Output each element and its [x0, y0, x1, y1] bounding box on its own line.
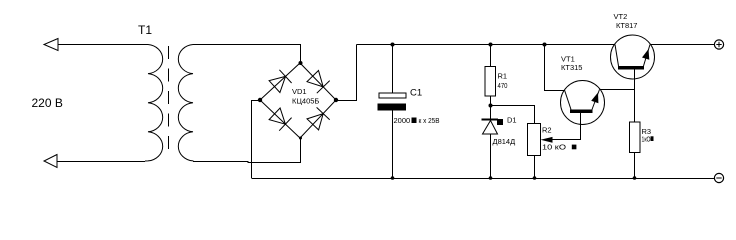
wire bridge plus to top rail: [336, 45, 357, 101]
svg-text:R2: R2: [542, 126, 552, 135]
output terminal plus: [714, 40, 723, 49]
resistor R2 (potentiometer): [528, 124, 541, 156]
transistor VT2 collector lead: [615, 45, 619, 67]
wire VT2 base lead down: [634, 70, 636, 123]
wire C1 top lead: [392, 45, 394, 94]
svg-text:C1: C1: [410, 88, 422, 99]
transformer T1 core: [168, 46, 170, 158]
R2 wiper arrow: [541, 137, 553, 143]
svg-text:к x 25В: к x 25В: [419, 116, 440, 125]
node bridge left (minus): [258, 98, 262, 102]
wire C1 bottom lead: [392, 111, 394, 179]
value 10 кОм: [542, 143, 576, 152]
transistor VT2 emitter lead: [644, 45, 651, 67]
transistor VT1 emitter lead: [592, 90, 600, 110]
value 1кОм: [642, 135, 654, 144]
node R2 bottom: [533, 176, 537, 180]
transformer T1 secondary winding: [178, 45, 193, 162]
node C1 bottom: [391, 176, 395, 180]
wire R1 top lead: [490, 45, 492, 67]
svg-text:R1: R1: [498, 72, 508, 81]
wire R1 bottom lead: [490, 96, 492, 119]
svg-text:2000: 2000: [394, 116, 411, 125]
wire: [58, 44, 148, 46]
transformer T1 primary winding: [145, 45, 163, 162]
wire R2 bottom lead: [534, 156, 536, 179]
input terminal top: [44, 39, 58, 51]
capacitor C1 bottom plate: [378, 104, 407, 111]
input terminal bottom: [44, 155, 57, 168]
svg-text:470: 470: [498, 81, 508, 90]
wire bottom rail: [252, 178, 715, 180]
wire bridge minus to bottom rail: [252, 101, 261, 179]
wire D1 bottom lead: [490, 134, 492, 178]
node bridge right (plus): [334, 98, 338, 102]
transistor VT1 circle: [561, 81, 605, 125]
node bridge bottom: [299, 137, 302, 140]
transistor VT2 circle: [611, 35, 655, 79]
wire VT2 emitter to plus terminal: [650, 44, 714, 46]
diode VD1.2: [307, 71, 330, 94]
wire secondary top to bridge: [193, 45, 301, 64]
svg-text:КТ315: КТ315: [561, 63, 582, 72]
svg-text:T1: T1: [138, 23, 152, 37]
transistor VT2 emitter arrow: [642, 49, 649, 60]
diode VD1.3: [269, 108, 292, 131]
value 2000мк x 25В: [394, 116, 440, 125]
node D1 bottom: [489, 176, 493, 180]
wire R2 wiper to VT1 base: [545, 113, 581, 140]
svg-text:1кО: 1кО: [642, 135, 651, 144]
svg-text:КТ817: КТ817: [616, 21, 637, 30]
transistor VT1 base bar: [570, 110, 593, 114]
node VT1 collector on rail: [543, 43, 547, 47]
bridge rectifier VD1 diamond: [260, 63, 336, 138]
node R1/D1/R2 junction: [489, 104, 493, 108]
transistor VT1 emitter arrow: [591, 93, 598, 104]
node R1 top: [489, 43, 493, 47]
svg-text:220 В: 220 В: [32, 96, 63, 110]
diode VD1.1: [269, 70, 292, 93]
node C1 top: [391, 43, 395, 47]
resistor R3: [630, 122, 641, 153]
node R3 bottom: [633, 176, 637, 180]
resistor R1: [485, 67, 496, 97]
svg-text:КЦ405Б: КЦ405Б: [292, 97, 319, 106]
zener diode D1 hook: [497, 119, 503, 125]
wire R3 bottom lead: [634, 153, 636, 179]
zener diode D1 cathode bar: [482, 119, 499, 121]
wire top rail: [357, 44, 616, 46]
wire VT1 emitter to VT2 base: [600, 89, 635, 91]
diode VD1.4: [307, 107, 330, 129]
transistor VT2 base bar: [618, 66, 644, 70]
capacitor C1 top plate: [379, 93, 406, 98]
output terminal minus: [714, 173, 723, 182]
transistor VT1 collector lead: [565, 90, 572, 110]
node bridge top: [299, 61, 303, 65]
svg-text:Д814Д: Д814Д: [493, 137, 516, 146]
svg-text:D1: D1: [507, 116, 517, 125]
wire secondary bottom to bridge: [193, 138, 301, 163]
wire VT1 collector to top rail: [545, 45, 565, 91]
svg-text:VD1: VD1: [292, 87, 307, 96]
svg-text:VT2: VT2: [614, 12, 628, 21]
svg-text:10 кО: 10 кО: [542, 143, 566, 152]
zener diode D1 triangle: [483, 121, 498, 135]
wire: [57, 161, 145, 163]
wire junction to R2: [491, 106, 535, 124]
